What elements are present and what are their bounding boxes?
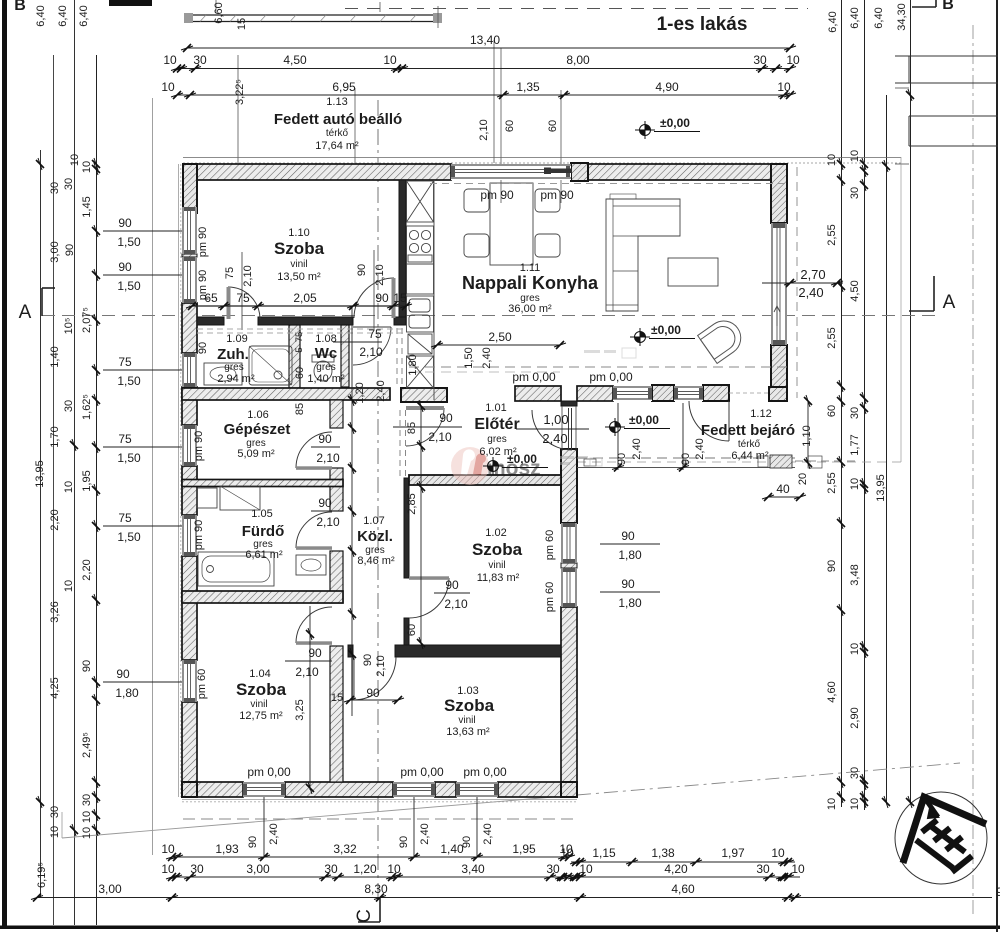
south living wall west segment <box>515 386 561 401</box>
svg-text:2,55: 2,55 <box>826 472 838 493</box>
top wall west segment <box>183 164 451 180</box>
svg-text:pm 0,00: pm 0,00 <box>400 765 444 779</box>
svg-text:1,62⁵: 1,62⁵ <box>81 394 93 420</box>
svg-text:90: 90 <box>197 342 209 354</box>
fraction furdo door <box>311 510 340 512</box>
svg-text:10: 10 <box>849 150 861 162</box>
right wall SE corner <box>769 387 787 401</box>
fraction eloter door <box>393 426 462 428</box>
window top wall kitchen <box>451 164 572 180</box>
svg-text:75: 75 <box>118 355 132 369</box>
window left w1b <box>182 257 197 303</box>
svg-text:3,48: 3,48 <box>849 564 861 585</box>
svg-text:Szoba: Szoba <box>472 540 523 559</box>
svg-text:85: 85 <box>406 422 418 434</box>
bottom-right corner pillar <box>561 782 577 797</box>
szoba102 bottom wall seg1 <box>348 645 353 657</box>
svg-text:térkő: térkő <box>326 128 349 139</box>
svg-text:10: 10 <box>81 827 93 839</box>
window bottom b2 <box>393 782 435 797</box>
terrace door arrow <box>776 308 778 326</box>
svg-text:pm 0,00: pm 0,00 <box>247 765 291 779</box>
section A bracket left <box>41 288 43 316</box>
corridor dim line <box>351 306 353 716</box>
svg-text:90: 90 <box>366 686 380 700</box>
bottom wall segment 1 <box>182 782 243 797</box>
svg-text:6,95: 6,95 <box>332 80 356 94</box>
ticks right chains <box>837 158 845 170</box>
svg-text:2,40: 2,40 <box>375 380 387 401</box>
door szoba104 arc <box>296 607 332 643</box>
svg-text:10: 10 <box>63 580 75 592</box>
svg-text:30: 30 <box>849 767 861 779</box>
svg-text:6,19⁵: 6,19⁵ <box>36 862 48 888</box>
company logo circle <box>895 792 987 884</box>
svg-text:vinil: vinil <box>290 259 307 270</box>
svg-text:2,85: 2,85 <box>406 493 418 514</box>
svg-text:10: 10 <box>826 154 838 166</box>
svg-text:30: 30 <box>63 400 75 412</box>
svg-text:gres: gres <box>316 362 335 373</box>
door szoba110 arc <box>228 287 260 319</box>
svg-text:6,40: 6,40 <box>78 5 90 26</box>
svg-text:30: 30 <box>63 178 75 190</box>
corridor east wall c <box>404 618 409 648</box>
bottom window axes <box>263 797 265 857</box>
szoba110 bottom wall seg2 <box>258 317 353 325</box>
south window axes <box>617 403 619 470</box>
svg-text:2,40: 2,40 <box>542 431 567 446</box>
corridor east wall b <box>404 478 409 578</box>
svg-text:1,35: 1,35 <box>516 80 540 94</box>
door eloter main (east wall) <box>532 410 572 450</box>
svg-text:4,20: 4,20 <box>664 862 688 876</box>
svg-text:Fedett autó beálló: Fedett autó beálló <box>274 111 402 128</box>
window left w5 <box>182 660 197 702</box>
coffee table <box>668 258 718 286</box>
svg-text:1,40 m²: 1,40 m² <box>307 373 345 385</box>
left wall pier w1b-w2 <box>182 303 197 353</box>
svg-text:90: 90 <box>826 560 838 572</box>
svg-text:Fürdő: Fürdő <box>242 523 285 540</box>
svg-text:pm 0,00: pm 0,00 <box>512 370 556 384</box>
round chair <box>698 314 748 363</box>
svg-text:4,90: 4,90 <box>655 80 679 94</box>
svg-text:vinil: vinil <box>458 715 475 726</box>
furdo bathtub <box>198 552 274 586</box>
svg-text:60: 60 <box>504 120 516 132</box>
svg-text:6,40: 6,40 <box>849 7 861 28</box>
svg-text:90: 90 <box>308 646 322 660</box>
svg-text:10: 10 <box>771 846 785 860</box>
bejaro dim 40 <box>768 496 800 498</box>
svg-text:90: 90 <box>118 216 132 230</box>
svg-text:3,00: 3,00 <box>98 882 122 896</box>
wall under zuh wc <box>182 388 390 400</box>
level marker carport <box>635 121 655 139</box>
left guide line x104 chain <box>96 55 98 925</box>
svg-text:30: 30 <box>324 862 338 876</box>
svg-text:2,40: 2,40 <box>694 438 706 459</box>
fraction 90 1,80 e2 <box>600 591 660 593</box>
top dashed line y8.5 <box>345 8 808 10</box>
svg-text:75: 75 <box>224 267 236 279</box>
svg-text:40: 40 <box>776 482 790 496</box>
page frame bottom bar <box>0 926 1000 930</box>
svg-text:1,15: 1,15 <box>592 846 616 860</box>
window south s1 <box>613 386 652 401</box>
right border x959 <box>996 0 998 932</box>
svg-text:vinil: vinil <box>488 560 505 571</box>
svg-text:2,70: 2,70 <box>800 267 825 282</box>
svg-text:90: 90 <box>621 577 635 591</box>
corridor west wall d <box>330 646 343 782</box>
kitchen counter edge <box>433 180 435 400</box>
ticks left chain <box>92 158 100 170</box>
svg-text:3,26: 3,26 <box>49 601 61 622</box>
fraction szoba104 door <box>285 660 332 662</box>
svg-text:34,30: 34,30 <box>896 3 908 31</box>
svg-text:30: 30 <box>753 53 767 67</box>
svg-text:30: 30 <box>49 182 61 194</box>
level marker bejaro <box>605 418 625 436</box>
svg-text:Szoba: Szoba <box>274 239 325 258</box>
fraction szoba102 door <box>434 592 470 594</box>
top wall inner dashed line <box>430 183 787 185</box>
svg-text:90: 90 <box>116 667 130 681</box>
lower east wall mid pier <box>561 563 577 568</box>
wc toilet <box>312 355 334 362</box>
eaves dashed line below house <box>183 818 577 820</box>
kitchen west wall <box>399 180 406 317</box>
zuh shower tray <box>249 346 292 385</box>
svg-text:6,40: 6,40 <box>827 11 839 32</box>
svg-text:A: A <box>19 302 32 323</box>
svg-text:10: 10 <box>81 811 93 823</box>
top wall east segment <box>587 164 771 180</box>
svg-text:2,05: 2,05 <box>293 291 317 305</box>
svg-text:30: 30 <box>546 862 560 876</box>
svg-text:10⁵: 10⁵ <box>63 318 75 335</box>
top-right boxes <box>895 55 998 57</box>
svg-text:10: 10 <box>791 862 805 876</box>
svg-text:±0,00: ±0,00 <box>651 323 681 337</box>
door szoba103 arc <box>353 657 396 700</box>
svg-text:pm 90: pm 90 <box>480 188 514 202</box>
window right wall living <box>771 223 787 345</box>
corridor west wall c <box>330 551 343 603</box>
svg-text:75: 75 <box>368 327 382 341</box>
roof edge band above top wall <box>183 157 901 159</box>
svg-text:10: 10 <box>383 53 397 67</box>
svg-text:1.12: 1.12 <box>750 408 771 420</box>
svg-text:10: 10 <box>49 826 61 838</box>
corridor west wall b <box>330 468 343 511</box>
svg-text:2,20: 2,20 <box>49 509 61 530</box>
svg-text:1,80: 1,80 <box>115 686 139 700</box>
svg-text:1,70: 1,70 <box>49 426 61 447</box>
svg-text:6,02 m²: 6,02 m² <box>479 446 517 458</box>
svg-text:30: 30 <box>849 187 861 199</box>
szoba110 bottom wall seg1 <box>197 317 224 325</box>
svg-text:2,10: 2,10 <box>478 119 490 140</box>
svg-text:10: 10 <box>69 154 81 166</box>
kitchen counter mid <box>407 264 434 294</box>
svg-text:2,55: 2,55 <box>826 327 838 348</box>
left wall pier w3-w4 <box>182 466 197 515</box>
svg-text:8,30: 8,30 <box>364 882 388 896</box>
svg-text:2,94 m²: 2,94 m² <box>217 373 255 385</box>
svg-text:2,40: 2,40 <box>268 823 280 844</box>
right wall pier bottom <box>771 345 787 387</box>
svg-text:90: 90 <box>461 836 473 848</box>
svg-text:1,45: 1,45 <box>81 196 93 217</box>
svg-text:2,10: 2,10 <box>316 515 340 529</box>
south living wall pillar 2 <box>703 385 729 401</box>
svg-text:1,20: 1,20 <box>354 382 366 403</box>
svg-text:4,50: 4,50 <box>849 280 861 301</box>
section A bracket right <box>909 310 934 312</box>
svg-text:pm 60: pm 60 <box>544 530 556 561</box>
bottom rows left <box>172 856 569 858</box>
svg-text:13,50 m²: 13,50 m² <box>277 271 321 283</box>
svg-text:1,95: 1,95 <box>512 842 536 856</box>
carport roof beam <box>184 2 442 28</box>
svg-text:pm 90: pm 90 <box>193 520 205 551</box>
svg-text:1.10: 1.10 <box>288 227 309 239</box>
svg-text:Wc: Wc <box>315 345 338 362</box>
szoba102 bottom wall seg2 <box>395 645 561 657</box>
svg-text:11,83 m²: 11,83 m² <box>477 572 520 584</box>
dim line top row3 <box>177 94 790 96</box>
svg-text:1.05: 1.05 <box>251 508 272 520</box>
svg-text:4,60: 4,60 <box>671 882 695 896</box>
svg-text:13,63 m²: 13,63 m² <box>446 726 490 738</box>
svg-text:30: 30 <box>849 407 861 419</box>
left wall pier w2-w3 <box>182 387 197 425</box>
svg-text:1,95: 1,95 <box>81 470 93 491</box>
svg-text:36,00 m²: 36,00 m² <box>508 303 552 315</box>
window left w3 <box>182 425 197 466</box>
svg-text:3,00: 3,00 <box>246 862 270 876</box>
svg-text:2,40: 2,40 <box>798 285 823 300</box>
svg-text:30: 30 <box>756 862 770 876</box>
wc east wall <box>341 325 349 387</box>
window left w4 <box>182 515 197 556</box>
svg-text:térkő: térkő <box>738 439 761 450</box>
sofa L-shape <box>606 199 680 311</box>
svg-text:8,00: 8,00 <box>566 53 590 67</box>
section C bracket <box>379 898 381 922</box>
south living wall pillar 1 <box>652 385 674 401</box>
svg-text:4,60: 4,60 <box>826 681 838 702</box>
fraction 2,70 2,40 line <box>762 282 843 284</box>
kitchen dishwasher <box>408 334 432 354</box>
svg-text:5,09 m²: 5,09 m² <box>237 448 275 460</box>
svg-text:B: B <box>14 0 26 14</box>
window left w2 <box>182 353 197 387</box>
svg-text:2,10: 2,10 <box>374 264 386 285</box>
svg-text:10: 10 <box>161 80 175 94</box>
svg-text:Szoba: Szoba <box>236 680 287 699</box>
fraction 90 1,80 e1 <box>600 543 660 545</box>
svg-text:10: 10 <box>579 862 593 876</box>
svg-text:60: 60 <box>294 367 306 379</box>
right guide line x850 <box>864 0 866 810</box>
svg-text:3,00: 3,00 <box>49 241 61 262</box>
svg-text:90: 90 <box>375 291 389 305</box>
bottom wall segment 4 <box>498 782 577 797</box>
svg-text:6,40: 6,40 <box>57 5 69 26</box>
window south s2 <box>674 386 703 401</box>
site boundary diagonal <box>62 795 577 838</box>
svg-text:Zuh.: Zuh. <box>217 346 249 363</box>
svg-text:2,40: 2,40 <box>419 823 431 844</box>
svg-text:2,49⁵: 2,49⁵ <box>81 732 93 758</box>
left guide line x58 <box>53 55 55 925</box>
right chain line x886 <box>886 95 888 802</box>
svg-text:Előtér: Előtér <box>474 416 519 433</box>
svg-text:13,40: 13,40 <box>470 33 500 47</box>
svg-text:2,10: 2,10 <box>242 265 254 286</box>
right dashdot line x928 <box>972 25 974 915</box>
svg-text:1,50: 1,50 <box>463 347 475 368</box>
chair 2 <box>535 189 560 212</box>
svg-text:1.07: 1.07 <box>363 515 384 527</box>
svg-text:2,55: 2,55 <box>826 224 838 245</box>
svg-text:2,40: 2,40 <box>481 347 493 368</box>
gepeszet box <box>197 488 217 508</box>
exterior insulation strip left wall <box>178 164 180 797</box>
bottom wall segment 3 <box>435 782 456 797</box>
svg-text:90: 90 <box>398 836 410 848</box>
svg-text:1,93: 1,93 <box>215 842 239 856</box>
svg-text:15: 15 <box>331 692 343 704</box>
window east e1 <box>561 523 577 563</box>
szoba102 top wall <box>409 475 561 485</box>
gepeszet furdo wall <box>182 480 343 487</box>
svg-text:13,95: 13,95 <box>875 474 887 502</box>
dim line 13,40 <box>187 47 790 49</box>
svg-text:1,97: 1,97 <box>721 846 745 860</box>
svg-text:2,10: 2,10 <box>359 345 383 359</box>
terrace roof dashed right side <box>796 167 798 398</box>
svg-text:A: A <box>943 292 956 313</box>
fraction gep door <box>311 446 340 448</box>
svg-text:6,60: 6,60 <box>213 2 225 23</box>
svg-text:1,80: 1,80 <box>618 596 642 610</box>
left fraction lines <box>103 230 182 232</box>
top-left corner pillar <box>183 164 197 213</box>
watermark <box>451 348 636 485</box>
svg-text:10: 10 <box>849 478 861 490</box>
szoba110 wall dim line <box>192 305 406 307</box>
interior dim 2,50 <box>437 344 560 346</box>
svg-text:3,25: 3,25 <box>294 699 306 720</box>
lower east wall top corner <box>561 401 577 406</box>
svg-text:6,40: 6,40 <box>873 7 885 28</box>
level marker living <box>630 328 650 346</box>
szoba103 door dim 90 <box>350 699 398 701</box>
svg-text:1,20: 1,20 <box>353 862 377 876</box>
furdo bottom wall <box>182 591 343 603</box>
svg-text:17,64 m²: 17,64 m² <box>315 140 359 152</box>
szoba104 dim 3,25 <box>309 606 311 790</box>
svg-text:75: 75 <box>236 291 250 305</box>
svg-text:C: C <box>354 909 375 923</box>
svg-text:10: 10 <box>786 53 800 67</box>
svg-text:1,80: 1,80 <box>407 354 419 375</box>
svg-text:1.06: 1.06 <box>247 409 268 421</box>
svg-text:90: 90 <box>356 264 368 276</box>
chair 1 <box>464 189 489 212</box>
svg-text:B: B <box>942 0 954 13</box>
svg-text:30: 30 <box>193 53 207 67</box>
svg-text:6,40: 6,40 <box>35 5 47 26</box>
svg-text:6,61 m²: 6,61 m² <box>245 549 283 561</box>
svg-text:90: 90 <box>247 836 259 848</box>
svg-text:1,50: 1,50 <box>117 374 141 388</box>
level marker eloter <box>483 457 503 475</box>
svg-text:90: 90 <box>362 654 374 666</box>
svg-text:15: 15 <box>393 291 407 305</box>
svg-text:pm 90: pm 90 <box>197 227 209 258</box>
svg-text:10: 10 <box>81 161 93 173</box>
svg-text:90: 90 <box>439 411 453 425</box>
corridor west wall a <box>330 400 343 428</box>
top wall mullion pillar <box>571 163 588 181</box>
chair 4 <box>535 234 560 257</box>
svg-text:Fedett bejáró: Fedett bejáró <box>701 422 795 439</box>
left guide line x80 <box>74 0 76 925</box>
svg-text:1,00: 1,00 <box>543 412 568 427</box>
svg-text:3,32: 3,32 <box>333 842 357 856</box>
svg-text:12,75 m²: 12,75 m² <box>239 710 283 722</box>
svg-text:90: 90 <box>118 260 132 274</box>
svg-text:10: 10 <box>63 481 75 493</box>
niche east wall <box>396 328 398 388</box>
threshold dashes <box>197 328 404 330</box>
furdo washbasin <box>296 555 326 575</box>
section A-A dashdot line <box>42 315 935 317</box>
svg-text:2,10: 2,10 <box>316 451 340 465</box>
bejaro step hatch block <box>758 456 768 467</box>
door wc niche arc <box>353 327 391 365</box>
bottom long line <box>37 897 992 899</box>
window bottom b3 <box>456 782 498 797</box>
svg-text:3,40: 3,40 <box>461 862 485 876</box>
section C dashdot vertical <box>377 100 379 900</box>
ticks top rows <box>181 44 193 52</box>
svg-text:90: 90 <box>318 496 332 510</box>
svg-text:10: 10 <box>163 53 177 67</box>
svg-text:1-es lakás: 1-es lakás <box>657 14 748 35</box>
svg-text:10: 10 <box>560 846 574 860</box>
svg-text:60: 60 <box>406 624 418 636</box>
chair 3 <box>464 234 489 257</box>
kitchen fridge <box>407 356 434 388</box>
svg-text:15: 15 <box>236 18 248 30</box>
corridor east wall a <box>399 410 401 478</box>
top-left corner bar <box>109 0 152 6</box>
fraction 1,00 2,40 line <box>516 428 589 430</box>
svg-text:2,10: 2,10 <box>428 430 452 444</box>
svg-text:90: 90 <box>81 660 93 672</box>
svg-text:1,50: 1,50 <box>117 451 141 465</box>
svg-text:1,50: 1,50 <box>117 279 141 293</box>
svg-text:75: 75 <box>118 432 132 446</box>
svg-text:90: 90 <box>616 453 628 465</box>
